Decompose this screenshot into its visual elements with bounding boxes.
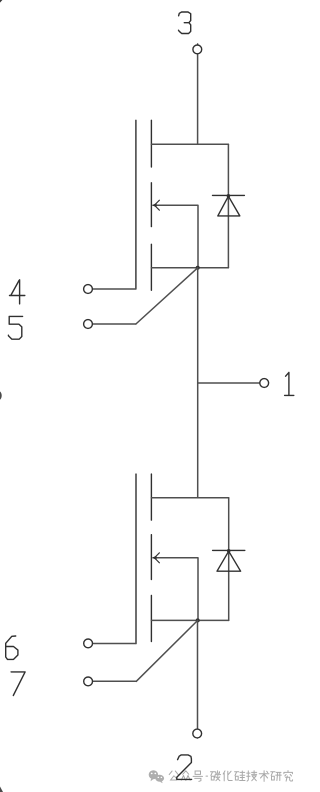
wire Q1 body tap: [153, 205, 198, 268]
corner artifact top-left: [0, 0, 2, 3]
terminal 7: [84, 677, 93, 686]
transistor Q1 channel segment 2: [150, 183, 152, 227]
terminal 1: [260, 379, 269, 388]
transistor Q1 gate bar: [135, 120, 137, 289]
junction Q1 source: [196, 266, 200, 270]
corner artifact bottom-left: [0, 787, 3, 792]
wire Q2 source tap: [151, 619, 228, 621]
junction D1 cathode: [227, 194, 231, 198]
diode D1 triangle: [218, 196, 240, 216]
junction D2 cathode: [227, 549, 231, 553]
arrow Q1 body: [156, 200, 160, 210]
diode D2 triangle: [217, 551, 241, 571]
wire gate lead pin 6: [88, 643, 136, 645]
terminal 2: [193, 729, 202, 738]
transistor Q2 gate bar: [135, 474, 137, 643]
terminal 6: [84, 639, 93, 648]
diode D2 branch wire: [228, 498, 230, 621]
wire Q2 source lead: [197, 620, 199, 738]
diode D1 cathode bar: [213, 194, 245, 196]
wire Q1 source tap: [151, 267, 228, 269]
wire mid vertical: [197, 268, 199, 498]
transistor Q2 channel segment 1: [150, 474, 152, 520]
diode D2 cathode bar: [213, 549, 245, 551]
wire pin 5 lead: [88, 323, 136, 325]
terminal 4: [84, 285, 93, 294]
label 5: [8, 316, 22, 339]
label 2: [177, 755, 192, 780]
arrow Q2 body: [156, 553, 160, 563]
label 7: [11, 672, 25, 696]
transistor Q2 channel segment 2: [150, 535, 152, 580]
wire Q1 kelvin diagonal: [136, 268, 198, 324]
left edge bullet: [0, 390, 2, 402]
watermark wechat icon: [149, 770, 164, 783]
terminal 5: [84, 320, 93, 329]
label 1: [285, 372, 294, 395]
label 4: [10, 280, 25, 304]
label 3: [179, 12, 191, 34]
wire Q1 drain feed: [197, 44, 199, 144]
wire node 1 tap: [198, 382, 265, 384]
transistor Q2 channel segment 3: [150, 595, 152, 641]
diode D1 branch wire: [227, 144, 229, 267]
label 6: [6, 636, 18, 659]
transistor Q1 channel segment 3: [150, 244, 152, 290]
wire pin 7 lead: [88, 680, 137, 682]
wire gate lead pin 4: [88, 288, 136, 290]
junction Q2 source: [196, 618, 200, 622]
wire Q2 body tap: [153, 558, 198, 621]
wire Q1 drain tap: [151, 143, 228, 145]
wire Q2 kelvin diagonal: [136, 620, 197, 681]
transistor Q1 channel segment 1: [150, 120, 152, 167]
terminal 3: [193, 45, 202, 54]
watermark text 公众号·碳化硅技术研究: [169, 771, 292, 782]
wire Q2 drain tap: [151, 497, 228, 499]
